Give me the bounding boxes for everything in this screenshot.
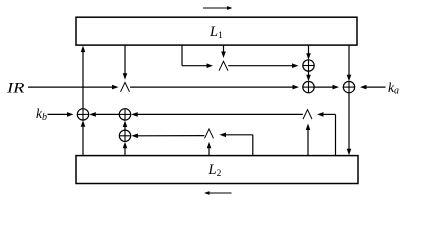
wire L2 tap up to A3 right input	[317, 112, 336, 156]
wire L2 up through X1 (lower segment)	[81, 120, 86, 155]
wire A2 to X4	[228, 63, 298, 68]
wire L2 up into X3	[123, 142, 128, 156]
xor gate X6 (ka input)	[343, 81, 354, 92]
wire X3 up into X2	[123, 121, 128, 131]
wire L2 up into A4	[207, 142, 212, 156]
xor gate X1 (kb input)	[77, 109, 88, 120]
and gate A1 (IR row)	[121, 82, 130, 91]
wire X4 down into X5	[306, 71, 311, 81]
wire IR to A1	[28, 85, 119, 90]
xor gate X5	[303, 81, 314, 92]
wire A1 to X5	[130, 85, 299, 90]
register L2	[76, 156, 358, 184]
wire X2 to X1	[89, 112, 119, 117]
shift direction arrow above L1	[203, 6, 233, 10]
wire X1 up into L1	[81, 46, 86, 109]
svg-text:ka: ka	[388, 80, 399, 97]
svg-text:L2: L2	[208, 162, 222, 179]
wire A4 to X3	[131, 134, 204, 139]
xor gate X4	[303, 60, 314, 71]
wire L1 tap down into A1	[123, 46, 128, 80]
wire L1 tap down into A2	[221, 46, 226, 59]
and gate A4 (lower)	[205, 129, 214, 138]
wire A3 to X2	[131, 112, 303, 117]
wire X6 down into L2	[347, 93, 352, 155]
wire ka to X6	[360, 85, 386, 90]
xor gate X2	[119, 109, 130, 120]
wire kb to X1	[48, 112, 74, 117]
wire L2 up into A3	[306, 124, 311, 156]
wire L2 tap up to A4 right input	[220, 133, 253, 156]
shift direction arrow below L2	[204, 191, 232, 195]
wire L1 tap down into X4	[306, 46, 311, 60]
input label IR	[6, 80, 25, 96]
svg-text:IR: IR	[6, 80, 25, 96]
and gate A3 (right, kb row)	[303, 110, 312, 119]
svg-text:kb: kb	[36, 106, 47, 123]
xor gate X3	[119, 130, 130, 141]
wire L1 tap down-left to A2 left input	[182, 46, 213, 69]
input label kb	[36, 106, 47, 123]
wire X5 to X6	[314, 85, 339, 90]
svg-text:L1: L1	[209, 24, 223, 41]
wire L1 tap down into X6	[347, 46, 352, 82]
and gate A2 (upper)	[219, 61, 228, 70]
register L1	[76, 17, 357, 45]
input label ka	[388, 80, 399, 97]
